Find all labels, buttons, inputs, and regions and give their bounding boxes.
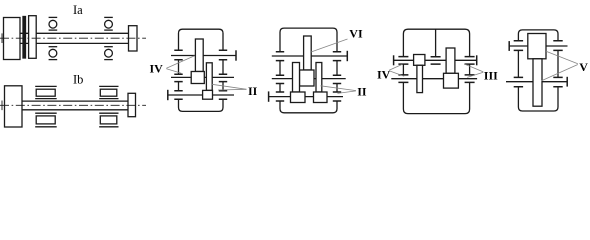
housing bottom wall: [518, 87, 558, 111]
leader IV to upper bearing: [166, 56, 194, 69]
svg-text:IV: IV: [150, 62, 164, 76]
bearing crossbars left wall shaft VI: [276, 52, 284, 61]
shaft IV left end bar: [393, 55, 395, 65]
motor M2: [5, 86, 23, 127]
bearing B2 (bottom left): [49, 47, 58, 60]
bearing crossbars right wall shaft IV: [465, 57, 475, 65]
bearing crossbars right wall shaft II: [219, 91, 227, 99]
plain bearing S4 (bottom right): [99, 113, 118, 127]
shaft IV right end bar: [476, 55, 478, 65]
shaft II lower line: [22, 109, 128, 111]
centerline shaft Ia: [0, 37, 146, 39]
bearing crossbars right wall shaft III: [465, 75, 475, 83]
gear G on shaft III: [444, 73, 459, 88]
shaft VI end bar: [346, 51, 348, 61]
svg-text:Ib: Ib: [73, 73, 83, 87]
bearing B3 (top right): [104, 17, 113, 30]
centerline end tick Ib: [1, 101, 3, 111]
bearing crossbars left wall input shaft: [514, 41, 523, 51]
intermediate shaft (middle): [171, 76, 234, 78]
shaft IV (upper): [394, 59, 477, 61]
bearing crossbars right wall middle shaft: [333, 75, 341, 83]
gear A on shaft IV: [195, 39, 203, 72]
shaft II upper line: [22, 100, 128, 102]
bearing crossbars right wall shaft IV: [219, 50, 227, 60]
bearing crossbars left wall middle shaft: [276, 75, 284, 83]
leader IV to shaft III bearing: [389, 71, 404, 77]
shaft II (bottom): [168, 94, 234, 96]
svg-text:II: II: [357, 84, 367, 98]
housing bottom wall: [179, 99, 224, 111]
housing bottom wall: [403, 82, 469, 113]
bearing crossbars right wall middle shaft: [219, 74, 227, 81]
svg-text:Ia: Ia: [73, 3, 83, 17]
shaft IV end bar: [235, 50, 237, 60]
shaft III (lower): [391, 78, 477, 80]
housing top wall: [403, 29, 469, 56]
svg-text:VI: VI: [349, 27, 363, 41]
housing bottom wall: [280, 101, 337, 113]
gear D2 on shaft II: [314, 92, 328, 103]
intermediate shaft (middle): [272, 78, 346, 80]
svg-text:V: V: [579, 60, 588, 74]
left wall segment between shafts 2-3: [178, 82, 180, 91]
left wall segment between shafts: [402, 64, 404, 75]
gear D1 on shaft II: [291, 92, 306, 103]
bearing crossbars left wall shaft IV: [174, 50, 182, 60]
bearing crossbars left wall middle shaft: [174, 74, 182, 81]
gear C on intermediate shaft: [206, 63, 212, 91]
shaft V right end bar: [566, 77, 568, 87]
input shaft left end bar: [508, 41, 510, 51]
shaft IV (top): [171, 55, 236, 57]
motor M1: [4, 18, 21, 60]
leader VI to gear A2: [311, 39, 348, 52]
bearing crossbars left wall shaft V: [514, 77, 523, 86]
svg-text:IV: IV: [377, 68, 391, 82]
bearing crossbars right wall shaft VI: [333, 52, 341, 61]
centerline end tick Ia: [1, 33, 3, 43]
leader II to gear D: [212, 84, 247, 89]
left wall segment between shafts 1-2: [279, 61, 281, 76]
shaft I lower line: [20, 42, 129, 44]
centerline shaft Ib: [0, 104, 146, 106]
gear K big on input shaft: [528, 34, 546, 59]
left wall segment between shafts: [517, 50, 519, 77]
gear B on intermediate shaft: [191, 72, 204, 84]
shaft II end bar: [167, 90, 169, 100]
housing top wall: [280, 28, 337, 52]
gear C1 on intermediate shaft: [293, 63, 300, 93]
coupling half 2 (wide disc): [29, 16, 37, 59]
right wall segment between shafts: [469, 64, 471, 75]
leader V to gear K: [546, 51, 578, 64]
shaft VI (top): [272, 55, 348, 57]
leader II to right bearing: [338, 91, 357, 94]
shaft II (bottom): [269, 96, 343, 98]
gear L narrow on shaft V: [533, 59, 542, 106]
shaft V (bottom): [506, 81, 567, 83]
bearing crossbars right wall shaft II: [333, 92, 341, 101]
leader V to gear L: [542, 65, 578, 81]
bearing crossbars left wall shaft II: [174, 91, 182, 99]
right wall segment between shafts: [557, 50, 559, 77]
leader III to right bearing: [464, 64, 483, 72]
leader III to shaft III end: [467, 72, 483, 77]
pulley P1: [129, 26, 138, 51]
leader II to right bearing: [218, 88, 247, 91]
gear F on shaft IV: [446, 48, 455, 73]
input shaft (top): [509, 45, 567, 47]
gear A2 on shaft VI: [304, 36, 312, 70]
svg-text:II: II: [248, 84, 258, 98]
gear D on shaft II: [203, 90, 213, 99]
bearing crossbars left wall shaft IV: [398, 57, 408, 65]
bearing crossbars right wall input shaft: [553, 41, 562, 51]
shaft I upper line: [20, 32, 129, 34]
leader IV to middle bearing: [166, 69, 181, 74]
right wall segment between shafts 1-2: [336, 61, 338, 76]
plain bearing S1 (top left): [35, 86, 57, 98]
left wall segment between shafts 2-3: [279, 84, 281, 93]
bearing B1 (top left): [49, 17, 58, 30]
bearing crossbars left wall shaft II: [276, 92, 284, 101]
leader IV to shaft IV bearing: [389, 64, 402, 70]
gear H on shaft III: [417, 65, 423, 92]
bearing crossbars right wall shaft V: [553, 77, 562, 86]
coupling half 1 (narrow disc): [23, 17, 26, 59]
right wall segment between shafts 1-2: [222, 60, 224, 74]
housing top wall: [518, 30, 558, 41]
bearing crossbars middle wall: [431, 57, 441, 64]
gear C2 on intermediate shaft: [316, 63, 322, 93]
bearing crossbars left wall shaft III: [398, 75, 408, 83]
bearing B4 (bottom right): [104, 47, 113, 60]
pulley P2: [128, 93, 136, 116]
plain bearing S3 (top right): [99, 86, 118, 98]
left wall segment between shafts 1-2: [178, 60, 180, 74]
gear B2 on intermediate shaft: [300, 70, 315, 86]
gear E on shaft IV: [414, 55, 425, 66]
housing top wall: [179, 29, 224, 50]
right wall segment between shafts 2-3: [336, 84, 338, 93]
leader II to gear C2: [321, 86, 357, 91]
plain bearing S2 (bottom left): [35, 113, 57, 127]
svg-text:III: III: [484, 68, 498, 82]
middle bearing wall: [435, 29, 437, 57]
right wall segment between shafts 2-3: [222, 82, 224, 91]
shaft II end bar: [268, 91, 270, 101]
